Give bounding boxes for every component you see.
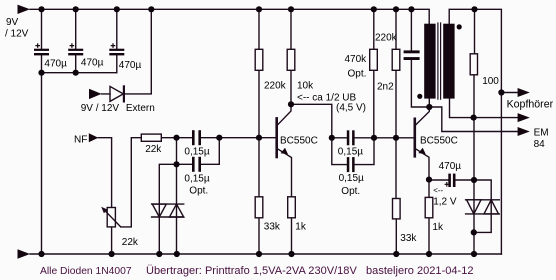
svg-text:33k: 33k	[264, 221, 281, 232]
svg-text:470µ: 470µ	[44, 59, 67, 70]
svg-text:1,2 V: 1,2 V	[433, 197, 457, 208]
svg-text:84: 84	[534, 139, 546, 150]
svg-text:/ 12V: / 12V	[5, 29, 29, 40]
svg-text:NF: NF	[74, 134, 87, 145]
svg-text:BC550C: BC550C	[280, 135, 318, 146]
svg-text:470µ: 470µ	[119, 60, 142, 71]
svg-text:0,15µ: 0,15µ	[184, 147, 209, 158]
svg-text:Alle Dioden 1N4007: Alle Dioden 1N4007	[40, 266, 132, 277]
svg-text:BC550C: BC550C	[420, 135, 458, 146]
svg-text:<--: <--	[433, 186, 443, 195]
svg-text:470k: 470k	[345, 54, 368, 65]
svg-text:22k: 22k	[145, 144, 162, 155]
svg-text:1k: 1k	[432, 222, 444, 233]
svg-text:100: 100	[482, 76, 499, 87]
svg-text:33k: 33k	[400, 233, 417, 244]
svg-text:Kopfhörer: Kopfhörer	[507, 98, 554, 110]
svg-text:Opt.: Opt.	[348, 68, 367, 79]
svg-text:Opt.: Opt.	[341, 186, 360, 197]
svg-text:EM: EM	[534, 128, 549, 139]
svg-text:Extern: Extern	[126, 103, 155, 114]
svg-text:10k: 10k	[297, 80, 314, 91]
svg-text:220k: 220k	[264, 80, 287, 91]
svg-text:220k: 220k	[375, 32, 398, 43]
svg-text:0,15µ: 0,15µ	[184, 173, 209, 184]
svg-text:470µ: 470µ	[81, 58, 104, 69]
svg-text:Übertrager: Printtrafo 1,5VA-2: Übertrager: Printtrafo 1,5VA-2VA 230V/18…	[146, 265, 474, 277]
svg-text:9V: 9V	[6, 17, 19, 28]
svg-text:0,15µ: 0,15µ	[338, 147, 363, 158]
svg-text:22k: 22k	[122, 237, 139, 248]
svg-text:2n2: 2n2	[377, 81, 394, 92]
svg-text:(4,5 V): (4,5 V)	[336, 103, 366, 114]
svg-text:470µ: 470µ	[439, 161, 462, 172]
svg-text:9V / 12V: 9V / 12V	[81, 103, 120, 114]
svg-text:Opt.: Opt.	[189, 186, 208, 197]
svg-text:0,15µ: 0,15µ	[339, 173, 364, 184]
svg-text:1k: 1k	[295, 221, 307, 232]
